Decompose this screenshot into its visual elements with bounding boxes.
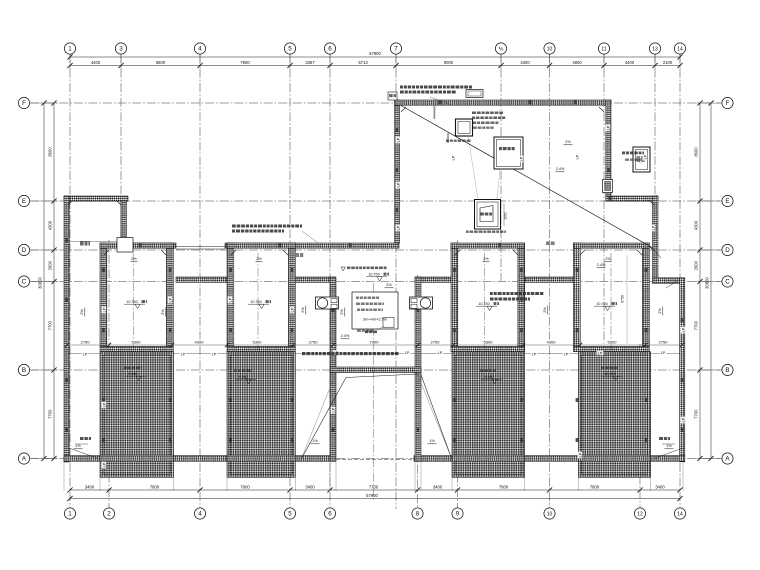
- wall: unit1 top wall along D: [100, 243, 173, 248]
- wall: upper-left room right side: [121, 201, 127, 242]
- wall: upper-left room top along E: [64, 196, 128, 201]
- svg-text:B: B: [22, 367, 26, 374]
- svg-text:LP: LP: [396, 182, 400, 187]
- wall: unit3 right wall: [518, 243, 525, 347]
- axis E grid line: [30, 200, 722, 202]
- wall: unit2 top wall along D: [227, 243, 295, 248]
- wall: upper-right section left wall: [395, 100, 400, 243]
- svg-text:LP: LP: [643, 154, 647, 159]
- top overall dimension line 57900: [67, 51, 682, 59]
- axis bubble 6 top: [324, 43, 335, 54]
- svg-text:2750: 2750: [81, 340, 91, 345]
- wall: courtyard left wall: [330, 277, 336, 461]
- svg-text:30800: 30800: [38, 277, 43, 289]
- svg-text:4300: 4300: [48, 220, 53, 230]
- svg-text:4400: 4400: [91, 60, 101, 65]
- svg-text:LP: LP: [681, 327, 685, 332]
- axis bubble 6 bottom: [324, 508, 335, 519]
- svg-text:2600: 2600: [48, 260, 53, 270]
- wall: A row band under terraces: [100, 456, 651, 462]
- svg-text:1%: 1%: [312, 439, 318, 443]
- axis bubble 14 top: [674, 43, 685, 54]
- corner brace marks: [68, 107, 654, 255]
- wall: unit4 right wall: [643, 243, 650, 347]
- svg-text:LP: LP: [290, 307, 294, 312]
- svg-text:8600: 8600: [48, 147, 53, 157]
- note: S1 dims: [434, 106, 471, 143]
- svg-text:4800: 4800: [572, 60, 582, 65]
- axis bubble 13 top: [649, 43, 660, 54]
- wall: C row right segment: [653, 278, 685, 284]
- svg-text:57900: 57900: [366, 493, 378, 498]
- leader at right wall corner: [666, 281, 677, 288]
- unit3 centerline: [484, 253, 486, 470]
- svg-text:LP: LP: [331, 407, 335, 412]
- note: right middle long note: [490, 292, 543, 301]
- svg-text:9: 9: [456, 511, 460, 518]
- svg-text:1%: 1%: [666, 444, 672, 448]
- axis 2 grid line: [108, 240, 110, 509]
- axis bubble 2 bottom: [103, 508, 114, 519]
- svg-text:10.750: 10.750: [126, 300, 137, 304]
- axis C grid line: [30, 281, 722, 283]
- note: parapet annotation above F wall: [400, 86, 472, 94]
- note: S3 dims 700 1800 1300: [466, 203, 508, 233]
- svg-text:5713: 5713: [358, 60, 368, 65]
- wall pilaster marks: [65, 101, 683, 443]
- svg-text:LP: LP: [564, 352, 569, 356]
- axis D grid line: [30, 249, 722, 251]
- annotation leader on F wall: [430, 97, 452, 105]
- svg-text:2100: 2100: [663, 60, 673, 65]
- axis bubble C left: [18, 276, 29, 287]
- unit3 room inner outline: [458, 248, 518, 346]
- skylight S2 11.500: [494, 137, 523, 169]
- svg-text:6800: 6800: [156, 60, 166, 65]
- wall: courtyard top wall: [330, 367, 421, 373]
- svg-text:5: 5: [288, 46, 292, 53]
- svg-text:5300: 5300: [132, 340, 142, 345]
- svg-text:LP: LP: [661, 351, 666, 355]
- level mark terrace3 9.280: [480, 370, 502, 384]
- svg-text:1%: 1%: [75, 444, 81, 448]
- fire water tank annotation box: [352, 292, 398, 333]
- svg-text:D: D: [725, 247, 730, 254]
- svg-text:LP: LP: [212, 352, 217, 356]
- wall: top wall along F: [395, 100, 612, 105]
- axis bubble D left: [18, 244, 29, 255]
- terrace corner extension lines to dim: [64, 462, 683, 492]
- skylight S4 11.050: [633, 147, 650, 172]
- svg-text:LP: LP: [519, 156, 523, 161]
- svg-text:1: 1: [68, 46, 72, 53]
- wall: E row right segment: [606, 196, 658, 201]
- svg-text:4: 4: [198, 511, 202, 518]
- svg-text:2%: 2%: [161, 309, 165, 315]
- svg-text:7800: 7800: [240, 484, 250, 489]
- axis bubble 8 bottom: [412, 508, 423, 519]
- svg-text:10.750: 10.750: [368, 273, 379, 277]
- level mark terrace2 9.280: [234, 370, 256, 384]
- axis 7 grid line: [395, 54, 397, 509]
- flue box on right wall: [603, 180, 613, 193]
- note: skylight window annotation: [472, 112, 505, 129]
- svg-text:LP: LP: [651, 225, 655, 230]
- terrace T3 stippled deck: [452, 352, 525, 478]
- left overall dimension line 30800: [38, 100, 47, 461]
- wall: unit4 eaves wall: [574, 347, 650, 352]
- svg-text:4400: 4400: [625, 60, 635, 65]
- svg-text:LP: LP: [578, 452, 582, 457]
- svg-text:F: F: [726, 100, 730, 107]
- svg-text:LP: LP: [102, 462, 106, 467]
- axis bubble 3 top: [115, 43, 126, 54]
- exhaust fan right: [410, 297, 433, 309]
- svg-text:10: 10: [547, 46, 553, 52]
- svg-text:2%: 2%: [131, 257, 137, 261]
- roof valley diagonal line: [401, 106, 653, 249]
- left dimension extension lines: [31, 103, 58, 459]
- svg-text:2%: 2%: [256, 257, 262, 261]
- svg-text:2050: 2050: [504, 212, 508, 219]
- svg-text:2%: 2%: [565, 140, 571, 144]
- axis bubble E left: [18, 195, 29, 206]
- svg-text:C: C: [22, 279, 27, 286]
- svg-text:30800: 30800: [705, 277, 710, 289]
- wall: unit1 right wall: [167, 243, 174, 347]
- svg-text:2: 2: [107, 511, 111, 518]
- svg-text:10.750: 10.750: [478, 302, 489, 306]
- svg-text:7700: 7700: [369, 484, 379, 489]
- wall: unit4 left wall: [574, 243, 581, 347]
- interior dimension row: [65, 340, 684, 348]
- wall: right outer wall C-A: [680, 278, 685, 462]
- unit4 centerline: [610, 253, 612, 470]
- svg-text:7800: 7800: [499, 484, 509, 489]
- svg-text:7700: 7700: [694, 320, 699, 330]
- svg-text:LP: LP: [228, 297, 232, 302]
- svg-text:7700: 7700: [48, 320, 53, 330]
- svg-text:LP: LP: [396, 137, 400, 142]
- terrace T4 stippled deck: [579, 352, 651, 478]
- axis bubble E right: [722, 195, 733, 206]
- wall: right wall E-C: [653, 196, 659, 283]
- axis B grid line: [30, 369, 722, 371]
- svg-text:2%: 2%: [605, 257, 611, 261]
- axis bubble 1 bottom: [64, 508, 75, 519]
- dim 9750 room4: [621, 255, 628, 344]
- svg-text:C: C: [725, 279, 730, 286]
- svg-text:LP: LP: [181, 352, 186, 356]
- svg-text:F: F: [22, 100, 26, 107]
- svg-text:14: 14: [677, 511, 683, 517]
- svg-text:9.280: 9.280: [238, 375, 247, 379]
- svg-text:1%: 1%: [429, 439, 435, 443]
- wall: unit2 right wall: [289, 243, 296, 347]
- courtyard ramp diagonal left: [301, 378, 346, 460]
- axis F grid line: [30, 102, 722, 104]
- wall: unit1 eaves wall: [100, 347, 173, 352]
- svg-text:LP: LP: [575, 154, 579, 159]
- svg-text:10: 10: [547, 511, 553, 517]
- axis bubble F right: [722, 97, 733, 108]
- svg-text:12: 12: [637, 511, 643, 517]
- axis bubble B left: [18, 364, 29, 375]
- wall: A row segment courtyard to terrace3: [414, 456, 456, 462]
- wall: courtyard right wall: [415, 277, 421, 461]
- axis bubble B right: [722, 364, 733, 375]
- note: D wall waterproofing annotation: [232, 225, 318, 244]
- svg-text:6: 6: [328, 511, 332, 518]
- vent box on F wall: [466, 90, 483, 98]
- entrance arrows bottom left: [69, 437, 97, 458]
- svg-text:E: E: [22, 198, 26, 205]
- svg-text:⅙: ⅙: [499, 46, 504, 52]
- svg-text:LP: LP: [83, 352, 88, 356]
- axis A grid line: [30, 458, 722, 460]
- wall: unit1 left wall: [100, 243, 107, 347]
- svg-text:LP: LP: [396, 225, 400, 230]
- svg-text:D: D: [22, 247, 27, 254]
- note: bottom middle long note: [302, 352, 399, 355]
- terrace T2 stippled deck: [227, 352, 295, 478]
- svg-text:LP: LP: [438, 351, 443, 355]
- svg-text:7800: 7800: [590, 484, 600, 489]
- courtyard centerline: [373, 283, 375, 500]
- axis bubble D right: [722, 244, 733, 255]
- svg-text:4300: 4300: [520, 60, 530, 65]
- axis bubble 5 bottom: [284, 508, 295, 519]
- svg-text:7: 7: [394, 46, 398, 53]
- svg-text:5300: 5300: [608, 340, 618, 345]
- svg-text:2%: 2%: [658, 308, 662, 314]
- level mark unit1 10.750: [124, 300, 147, 309]
- svg-text:2.4%: 2.4%: [597, 263, 606, 267]
- top segment dimension line: [67, 53, 682, 69]
- svg-text:2.4%: 2.4%: [341, 334, 350, 338]
- axis 9 grid line: [457, 240, 459, 509]
- level mark terrace4 12.000: [601, 367, 623, 381]
- svg-text:3400: 3400: [655, 484, 665, 489]
- unit1 room inner outline: [107, 248, 167, 346]
- svg-text:2750: 2750: [659, 340, 669, 345]
- svg-text:9000: 9000: [444, 60, 454, 65]
- axis bubble 9 bottom: [452, 508, 463, 519]
- svg-text:3400: 3400: [433, 484, 443, 489]
- axis bubble 1 top: [64, 43, 75, 54]
- svg-text:9.280: 9.280: [128, 372, 137, 376]
- svg-text:10.750: 10.750: [596, 302, 607, 306]
- unit2 room inner outline: [234, 248, 289, 346]
- svg-text:5300: 5300: [484, 340, 494, 345]
- note: courtyard top small mark: [357, 330, 373, 332]
- level mark unit4 10.750: [594, 302, 617, 311]
- axis 8 grid line: [417, 275, 419, 509]
- svg-text:11: 11: [601, 46, 606, 52]
- bottom overall dimension line 57900: [67, 493, 682, 501]
- svg-text:E: E: [725, 198, 729, 205]
- axis bubble 7 top: [390, 43, 401, 54]
- svg-text:2%: 2%: [543, 307, 547, 313]
- svg-text:14: 14: [677, 46, 683, 52]
- wall: A row left segment: [64, 456, 103, 462]
- svg-text:B: B: [725, 367, 729, 374]
- note: S4 label 11.050: [622, 152, 644, 165]
- wall: unit3 top wall along D: [451, 243, 525, 248]
- courtyard ramp top edge: [346, 374, 418, 378]
- svg-text:4: 4: [198, 46, 202, 53]
- axis bubble C right: [722, 276, 733, 287]
- level mark unit3 10.750: [476, 302, 499, 311]
- unit1 centerline: [133, 253, 135, 470]
- note: section mark d1 left: [80, 241, 90, 246]
- svg-text:5: 5: [288, 511, 292, 518]
- axis bubble F left: [18, 97, 29, 108]
- svg-text:LP: LP: [598, 351, 603, 355]
- svg-text:LP: LP: [405, 351, 410, 355]
- axis bubble 12 bottom: [634, 508, 645, 519]
- svg-text:7800: 7800: [150, 484, 160, 489]
- axis bubble 5 top: [284, 43, 295, 54]
- vent box left of upper-right section: [388, 92, 397, 100]
- svg-text:7700: 7700: [370, 340, 380, 345]
- slope arrows: [74, 140, 674, 449]
- svg-text:2750: 2750: [431, 340, 441, 345]
- axis 12 grid line: [639, 344, 641, 509]
- svg-text:8: 8: [416, 511, 420, 518]
- axis 19 grid line: [500, 54, 502, 281]
- svg-text:4300: 4300: [547, 340, 557, 345]
- wall: unit4 top wall along D: [574, 243, 650, 248]
- LP rainwater pipe markers: [82, 125, 686, 469]
- svg-text:2750: 2750: [309, 340, 319, 345]
- right dimension extension lines: [696, 103, 720, 459]
- svg-text:3387: 3387: [305, 60, 315, 65]
- courtyard open edge dashed: [336, 459, 415, 461]
- bottom segment dimension line: [67, 484, 682, 492]
- svg-text:10.750: 10.750: [250, 300, 261, 304]
- axis bubble A right: [722, 453, 733, 464]
- axis 5 grid line: [289, 54, 291, 509]
- svg-text:6: 6: [328, 46, 332, 53]
- note: section mark d1 middle: [296, 253, 303, 257]
- axis bubble 10 bottom: [544, 508, 555, 519]
- terrace T1 stippled deck: [100, 352, 174, 478]
- axis 10 grid line: [549, 54, 551, 509]
- svg-text:13: 13: [652, 46, 658, 52]
- axis 14 grid line: [679, 54, 681, 509]
- svg-text:LP: LP: [102, 307, 106, 312]
- wall: D row left segment: [130, 243, 176, 248]
- right segment dimension line: [694, 100, 703, 461]
- svg-text:LP: LP: [606, 125, 610, 130]
- wall: A row segment between terrace3 terrace4: [522, 456, 579, 462]
- axis bubble 4 top: [194, 43, 205, 54]
- level mark unit2 10.750: [248, 300, 271, 309]
- axis bubble 14 bottom: [674, 508, 685, 519]
- svg-text:2%: 2%: [386, 283, 392, 287]
- unit4 room inner outline: [580, 248, 642, 346]
- stairwell opening S3: [475, 200, 501, 230]
- axis bubble &#8537; top: [495, 43, 506, 54]
- axis 6 grid line: [329, 54, 331, 509]
- axis bubble A left: [18, 453, 29, 464]
- svg-text:57900: 57900: [369, 51, 381, 56]
- upper-left room inner outline: [69, 201, 121, 241]
- svg-text:4300: 4300: [694, 220, 699, 230]
- leader line S1 to S3: [468, 136, 500, 199]
- svg-text:LP: LP: [532, 352, 537, 356]
- unit2 centerline: [257, 253, 259, 470]
- wall: C row segment between courtyard room3: [415, 277, 455, 282]
- svg-text:LP: LP: [168, 297, 172, 302]
- wall: unit2 left wall: [227, 243, 234, 347]
- svg-text:9.280: 9.280: [484, 375, 493, 379]
- svg-text:LP: LP: [451, 155, 455, 160]
- svg-text:7700: 7700: [48, 409, 53, 419]
- right overall dimension line 30800: [705, 100, 714, 461]
- wall: D row middle segment: [225, 243, 399, 248]
- svg-text:4300: 4300: [195, 340, 205, 345]
- svg-text:12.000: 12.000: [604, 372, 615, 376]
- axis 11 grid line: [603, 54, 605, 352]
- svg-text:7700: 7700: [694, 409, 699, 419]
- svg-text:9750: 9750: [621, 295, 625, 303]
- wall: A row segment between terrace1 terrace2: [170, 456, 230, 462]
- svg-text:2%: 2%: [301, 307, 305, 313]
- svg-text:2600: 2600: [694, 260, 699, 270]
- wall: unit3 left wall: [451, 243, 458, 347]
- wall: C row segment between room1 room2: [176, 277, 227, 282]
- wall: unit2 eaves wall: [227, 347, 295, 352]
- wall: A row right segment: [647, 456, 685, 462]
- svg-text:LP: LP: [102, 402, 106, 407]
- level mark terrace1 9.280: [124, 367, 146, 381]
- wall: C row segment between room3 room4: [525, 277, 576, 282]
- courtyard ramp diagonal right: [421, 374, 453, 460]
- note: section mark on D wall right: [546, 242, 555, 246]
- column block at axis D: [117, 238, 133, 253]
- entrance arrows bottom right: [655, 437, 683, 458]
- skylight S1 chimney: [456, 119, 473, 136]
- axis 3 grid line: [120, 54, 122, 252]
- courtyard inner diagonal guides: [301, 373, 452, 460]
- svg-text:1: 1: [68, 511, 72, 518]
- svg-text:7900: 7900: [240, 60, 250, 65]
- wall: upper-right section right wall F-E: [606, 100, 611, 201]
- left segment dimension line: [48, 100, 57, 461]
- roof ridge short diagonal: [653, 248, 661, 258]
- wall: unit3 eaves wall: [451, 347, 525, 352]
- axis bubble 11 top: [598, 43, 609, 54]
- eaves gutter line: [67, 353, 682, 355]
- svg-text:2%: 2%: [340, 309, 344, 315]
- axis 13 grid line: [654, 54, 656, 256]
- svg-text:8600: 8600: [694, 147, 699, 157]
- svg-text:5300: 5300: [253, 340, 263, 345]
- wall: C row segment between room2 courtyard: [295, 277, 335, 282]
- beam: D row double line segment: [176, 246, 225, 249]
- axis 4 grid line: [199, 54, 201, 509]
- svg-text:3400: 3400: [85, 484, 95, 489]
- wall: A row segment terrace2 to courtyard: [292, 456, 335, 462]
- level mark flat roof 10.750 center: [341, 267, 389, 282]
- svg-text:2%: 2%: [483, 257, 489, 261]
- axis 1 grid line: [69, 54, 71, 509]
- svg-text:3: 3: [119, 46, 123, 53]
- svg-text:2.4%: 2.4%: [556, 167, 565, 171]
- axis bubble 4 bottom: [194, 508, 205, 519]
